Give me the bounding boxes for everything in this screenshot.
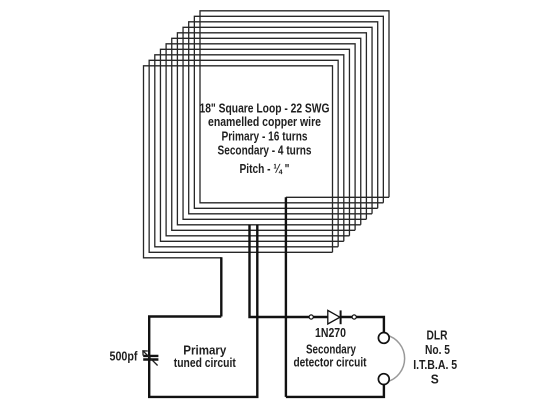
svg-text:DLR: DLR — [427, 327, 448, 342]
loop antenna L1 turn 5 — [166, 44, 355, 236]
svg-text:No. 5: No. 5 — [425, 342, 450, 357]
loop antenna L1 turn 8 — [183, 27, 372, 219]
terminal dot left of diode — [309, 315, 313, 319]
wire: primary outer lead from loop to primary box — [220, 257, 222, 316]
loop antenna L1 turn 1 — [144, 66, 333, 258]
capacitor C1 500pf plates on primary box left edge — [143, 356, 158, 360]
svg-text:tuned circuit: tuned circuit — [174, 355, 237, 370]
headphone terminal top — [378, 333, 389, 344]
loop antenna L1 turn 9 — [189, 22, 378, 214]
loop antenna L1 turn 3 — [155, 55, 344, 247]
svg-text:Pitch - ¼ ": Pitch - ¼ " — [240, 161, 290, 176]
svg-text:I.T.B.A. 5: I.T.B.A. 5 — [413, 357, 457, 372]
svg-text:enamelled copper wire: enamelled copper wire — [208, 114, 321, 129]
terminal dot right of diode — [352, 315, 356, 319]
label: Primary tuned circuit — [174, 343, 237, 370]
wire: tap lead from loop down, bending right to detector — [250, 225, 328, 317]
headphone earpiece arc — [386, 335, 404, 382]
diode D1 cathode bar — [340, 310, 342, 324]
loop antenna L1 turn 10 — [194, 16, 383, 208]
loop antenna L1 turn 11 — [200, 11, 389, 203]
diode D1 1N270 triangle — [328, 310, 340, 324]
primary tuned circuit box (right edge runs up to loop as inner lead) — [149, 225, 257, 397]
loop antenna L1 turn 4 — [160, 49, 349, 241]
loop antenna L1 turn 7 — [177, 33, 366, 225]
svg-text:Secondary - 4 turns: Secondary - 4 turns — [218, 143, 312, 158]
secondary detector circuit box bottom and right edge — [286, 384, 384, 397]
capacitor C1 variable arrow — [143, 351, 157, 365]
svg-text:Primary - 16 turns: Primary - 16 turns — [222, 128, 308, 143]
svg-text:18" Square Loop - 22 SWG: 18" Square Loop - 22 SWG — [200, 100, 330, 115]
svg-text:detector circuit: detector circuit — [294, 354, 368, 369]
svg-text:S: S — [431, 371, 439, 386]
label: loop specification text — [200, 100, 330, 175]
loop antenna L1 winding end segment to secondary lead — [286, 196, 389, 198]
label: DLR No. 5 I.T.B.A. 5 S — [413, 327, 457, 386]
headphone terminal bottom — [378, 374, 389, 385]
svg-text:500pf: 500pf — [110, 349, 139, 364]
loop antenna L1 turn 6 — [172, 38, 361, 230]
label: Secondary detector circuit — [294, 342, 368, 370]
wire: secondary lead from loop down (left edge of detector box) — [285, 197, 287, 397]
svg-text:1N270: 1N270 — [315, 325, 346, 340]
loop antenna L1 turn 2 — [149, 60, 338, 252]
